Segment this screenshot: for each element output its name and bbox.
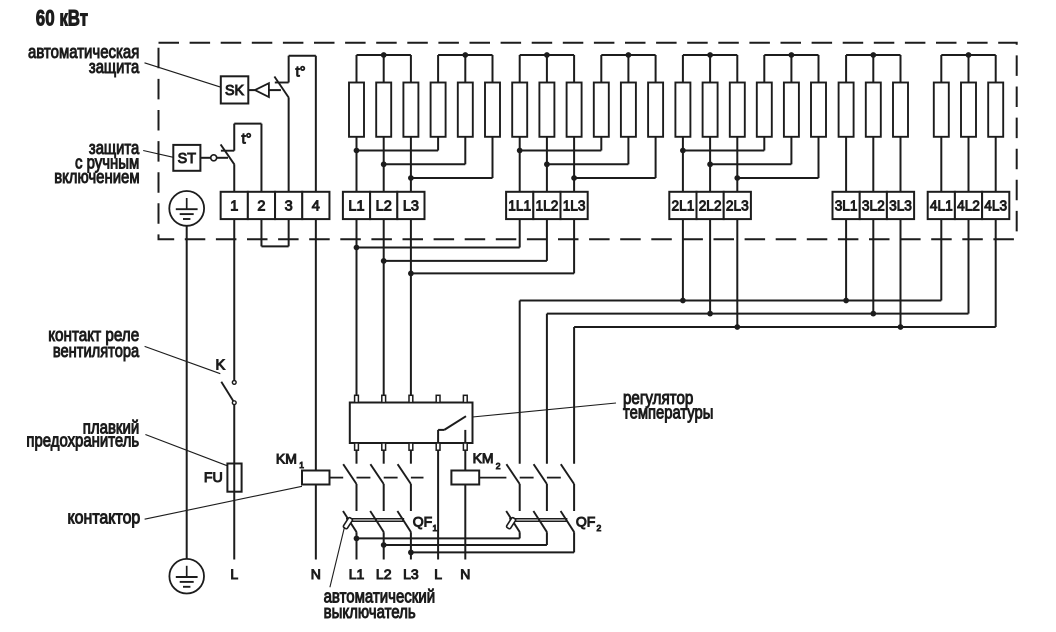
heater element EK3b3	[811, 83, 826, 137]
svg-text:KM: KM	[276, 451, 297, 467]
relay box SK	[221, 76, 249, 103]
junction EK2b mid	[626, 52, 632, 58]
heater element EK3a1	[675, 83, 690, 137]
wire tap to 1L1	[357, 247, 520, 249]
wire 3L1 to bus	[845, 219, 847, 300]
svg-text:SK: SK	[225, 83, 245, 99]
svg-text:4: 4	[312, 198, 320, 214]
wire element EK2b2 top	[627, 55, 629, 83]
svg-text:3L2: 3L2	[862, 198, 885, 214]
terminal 4L3 of block XT6	[982, 192, 1009, 219]
wire element EK2a3 top	[573, 55, 575, 83]
wire QF2 output 3 to phase	[411, 551, 574, 553]
KM2 linkage dashes	[479, 477, 506, 479]
star top bar EK2b	[601, 54, 655, 56]
KM2 contact pole 3	[561, 464, 574, 484]
junction EK2 phase 1	[517, 148, 523, 154]
wire 2L3 to bus	[736, 219, 738, 327]
wire element EK1a3 top	[410, 55, 412, 83]
fan relay contact K	[232, 381, 236, 385]
terminal 1L2 of block XT3	[533, 192, 560, 219]
svg-text:t°: t°	[296, 64, 306, 81]
svg-text:1L2: 1L2	[536, 198, 559, 214]
wire element EK3a3 top	[736, 55, 738, 83]
terminal 2L1 of block XT4	[669, 192, 696, 219]
svg-text:ST: ST	[178, 151, 197, 167]
terminal L2 of block XT2	[370, 192, 397, 219]
svg-text:2: 2	[257, 198, 265, 214]
wire EK2 element 3 bottom to terminal	[573, 137, 575, 192]
junction QF1 output 3	[408, 550, 414, 556]
terminal 1 of block XT1	[221, 192, 248, 219]
svg-text:L2: L2	[376, 566, 392, 582]
wire N through coil KM1 to terminal	[315, 485, 317, 560]
wire element EK1b3 top	[492, 55, 494, 83]
wire EK2 element 2 bottom to terminal	[546, 137, 548, 192]
terminal 1L3 of block XT3	[561, 192, 588, 219]
wire terminal 4 (N) down to contactor coil KM1	[315, 219, 317, 470]
wire element EK1a2 top	[383, 55, 385, 83]
svg-text:контактор: контактор	[68, 507, 141, 527]
breaker QF1 pole 2	[370, 511, 384, 532]
junction phase L3 tap to 1L3	[408, 271, 414, 277]
svg-text:L1: L1	[348, 198, 364, 214]
KM1 contact pole 2	[383, 450, 385, 464]
junction EK5 mid	[966, 52, 972, 58]
svg-text:FU: FU	[204, 470, 223, 486]
regulator top pin 1	[355, 395, 359, 402]
wire phase L1 from terminal to regulator pin 1	[356, 219, 358, 395]
wire element EK3a1 top	[682, 55, 684, 83]
ground symbol PE bottom	[169, 559, 204, 594]
leader to FU	[145, 435, 227, 466]
bus KM2 phase 2	[547, 313, 969, 315]
svg-text:3L1: 3L1	[835, 198, 858, 214]
regulator internal switch	[437, 430, 439, 443]
regulator bottom pin 1	[355, 443, 359, 450]
svg-text:L3: L3	[403, 566, 419, 582]
svg-text:4L2: 4L2	[957, 198, 980, 214]
junction EK2 phase 3	[571, 175, 577, 181]
wire element EK52 top	[968, 55, 970, 83]
wire regulator pin 5 (N) to coil KM2 and terminal	[464, 450, 466, 470]
wire EK3 element 2 bottom to terminal	[709, 137, 711, 192]
wire element EK2b1 top	[600, 55, 602, 83]
svg-text:2L2: 2L2	[699, 198, 722, 214]
svg-text:1L1: 1L1	[508, 198, 531, 214]
heater enclosure dashed border	[159, 43, 1017, 239]
wire element EK1b2 top	[464, 55, 466, 83]
regulator top pin 4	[436, 395, 440, 402]
breaker QF2 pole 1	[506, 511, 520, 532]
wire EK1 element 3 bottom to terminal	[410, 137, 412, 192]
wire EK1 element 5 bottom jog	[464, 137, 466, 165]
wire element EK41 top	[845, 55, 847, 83]
SK thermostat blade	[274, 77, 289, 98]
junction EK1a mid	[381, 52, 387, 58]
junction QF1 output 1	[354, 536, 360, 542]
wire regulator pin 4 (L) down to terminal	[437, 450, 439, 559]
wire element EK53 top	[995, 55, 997, 83]
star top bar EK5	[941, 54, 995, 56]
wire element EK2a2 top	[546, 55, 548, 83]
heater element EK1b1	[431, 83, 446, 137]
KM1 contact pole 3	[410, 450, 412, 464]
heater element EK52	[961, 83, 976, 137]
wire EK3 element 6 bottom jog	[818, 137, 820, 178]
regulator top pin 2	[382, 395, 386, 402]
wire 2L2 to bus	[709, 219, 711, 314]
svg-text:KM: KM	[473, 450, 494, 466]
wire element EK42 top	[872, 55, 874, 83]
wire element EK1a1 top	[356, 55, 358, 83]
ST thermostat blade	[221, 144, 235, 164]
wire triangle to SK thermostat contact	[269, 89, 281, 91]
svg-text:L: L	[434, 566, 442, 582]
svg-text:включением: включением	[54, 167, 139, 187]
terminal 3L2 of block XT5	[860, 192, 887, 219]
KM2 contact pole 2	[534, 464, 547, 484]
svg-text:2L3: 2L3	[726, 198, 749, 214]
breaker QF1 pole 1	[343, 511, 357, 532]
star top bar EK1b	[438, 54, 492, 56]
terminal L3 of block XT2	[397, 192, 424, 219]
leader to SK	[145, 63, 221, 87]
junction EK2a mid	[544, 52, 550, 58]
star top bar EK2a	[520, 54, 574, 56]
wire EK1 element 6 bottom jog	[492, 137, 494, 178]
KM1 linkage dashes	[330, 477, 344, 479]
svg-text:4L3: 4L3	[984, 198, 1007, 214]
svg-text:N: N	[460, 566, 470, 582]
wire EK3 element 1 bottom to terminal	[682, 137, 684, 192]
wire element EK51 top	[940, 55, 942, 83]
triangle arrow at SK	[255, 83, 269, 97]
heater element EK53	[988, 83, 1003, 137]
heater element EK1b2	[458, 83, 473, 137]
wire EK2 element 5 bottom jog	[627, 137, 629, 165]
SK thermostat tick into sensor box	[275, 82, 289, 84]
terminal 2L2 of block XT4	[697, 192, 724, 219]
wire QF2 output 2 to phase	[384, 544, 547, 546]
junction phase L2 tap to 1L2	[381, 258, 387, 264]
svg-text:2L1: 2L1	[672, 198, 695, 214]
svg-text:4L1: 4L1	[930, 198, 953, 214]
fuse FU	[233, 464, 235, 492]
wire EK3 element 5 bottom jog	[790, 137, 792, 165]
wire EK1 element 4 bottom jog	[437, 137, 439, 151]
junction EK1b mid	[462, 52, 468, 58]
wire terminal 1 down to K contact	[233, 219, 235, 380]
regulator top pin 5	[463, 395, 467, 402]
leader to KM1	[145, 486, 302, 519]
regulator bottom pin 2	[382, 443, 386, 450]
leader to K	[145, 346, 221, 373]
ST thermostat tick into sensor box	[221, 150, 234, 152]
breaker QF2 linkage double bar	[509, 518, 567, 520]
svg-text:3: 3	[285, 198, 293, 214]
svg-text:3L3: 3L3	[889, 198, 912, 214]
svg-text:L2: L2	[376, 198, 392, 214]
heater element EK3b1	[757, 83, 772, 137]
junction phase L1 tap to 1L1	[354, 245, 360, 251]
svg-text:K: K	[215, 357, 225, 373]
svg-text:N: N	[311, 566, 321, 582]
terminal 4L2 of block XT6	[955, 192, 982, 219]
relay box ST	[173, 145, 200, 171]
wire 3L3 to bus	[900, 219, 902, 327]
wire QF2 output 1 to phase	[357, 537, 520, 539]
wire EK1 element 1 bottom to terminal	[356, 137, 358, 192]
junction bus 2 at 2L2	[707, 311, 713, 317]
junction EK2 phase 2	[544, 161, 550, 167]
wire phase L2 from terminal to regulator pin 2	[383, 219, 385, 395]
junction bus 3 at 3L3	[898, 324, 904, 330]
ST contact fixed circle	[211, 155, 217, 161]
terminal 3 of block XT1	[275, 192, 302, 219]
wire EK5 element 2 bottom to terminal	[968, 137, 970, 192]
heater element EK2a2	[539, 83, 554, 137]
svg-text:предохранитель: предохранитель	[26, 430, 139, 450]
heater element EK2b3	[648, 83, 663, 137]
contactor coil KM1	[302, 471, 330, 485]
KM2 contact pole 1	[506, 464, 519, 484]
breaker QF1 handle flag	[343, 517, 353, 529]
wire 3L2 to bus	[872, 219, 874, 314]
heater element EK3b2	[784, 83, 799, 137]
ST sensor box t-deg (over terminals 1-2)	[233, 124, 235, 151]
junction EK1 phase 1	[354, 148, 360, 154]
junction EK1 phase 2	[381, 161, 387, 167]
heater element EK2b1	[594, 83, 609, 137]
svg-text:L: L	[230, 566, 238, 582]
junction bus 2 at 3L2	[870, 311, 876, 317]
terminal 1L1 of block XT3	[506, 192, 533, 219]
heater element EK2b2	[621, 83, 636, 137]
ground symbol PE top (inside enclosure)	[169, 191, 204, 226]
svg-text:температуры: температуры	[623, 402, 713, 422]
svg-text:защита: защита	[89, 57, 140, 77]
breaker QF2 pole 3	[561, 511, 575, 532]
junction EK4 mid	[870, 52, 876, 58]
wire EK1 element 2 bottom to terminal	[383, 137, 385, 192]
svg-text:60 кВт: 60 кВт	[36, 6, 88, 31]
breaker QF1 linkage double bar	[346, 518, 404, 520]
svg-text:t°: t°	[242, 131, 252, 148]
svg-text:вентилятора: вентилятора	[53, 341, 140, 361]
bus KM2 phase 3	[574, 326, 996, 328]
terminal 3L3 of block XT5	[887, 192, 914, 219]
heater element EK3a2	[703, 83, 718, 137]
star top bar EK1a	[357, 54, 411, 56]
junction EK1 phase 3	[408, 175, 414, 181]
regulator bottom pin 5	[463, 443, 467, 450]
svg-text:2: 2	[597, 523, 602, 533]
heater element EK3a3	[730, 83, 745, 137]
heater element EK1a3	[403, 83, 418, 137]
wire EK2 element 4 bottom jog	[600, 137, 602, 151]
bus KM2 phase 1	[520, 300, 942, 302]
wire tap to 1L2	[384, 260, 547, 262]
junction EK3 phase 3	[734, 175, 740, 181]
heater element EK42	[866, 83, 881, 137]
heater element EK2a1	[512, 83, 527, 137]
svg-text:1L3: 1L3	[563, 198, 586, 214]
svg-text:выключатель: выключатель	[324, 602, 416, 622]
junction EK3 phase 2	[707, 161, 713, 167]
junction EK3a mid	[707, 52, 713, 58]
heater element EK2a3	[567, 83, 582, 137]
wire EK4 element 2 bottom to terminal	[872, 137, 874, 192]
svg-text:L1: L1	[349, 566, 365, 582]
terminal 3L1 of block XT5	[833, 192, 860, 219]
terminal 2 of block XT1	[248, 192, 275, 219]
star top bar EK3a	[683, 54, 737, 56]
wire SK to triangle	[248, 89, 255, 91]
wire EK4 element 3 bottom to terminal	[900, 137, 902, 192]
breaker QF2 pole 2	[533, 511, 547, 532]
junction bus 1 at 2L1	[680, 298, 686, 304]
wire EK4 element 1 bottom to terminal	[845, 137, 847, 192]
regulator bottom pin 3	[409, 443, 413, 450]
terminal L1 of block XT2	[343, 192, 370, 219]
wire circle to ST thermostat	[217, 157, 228, 159]
wire EK3 element 4 bottom jog	[763, 137, 765, 151]
junction bus 3 at 2L3	[734, 324, 740, 330]
wire element EK3b1 top	[763, 55, 765, 83]
leader to ST	[143, 151, 173, 158]
wire tap to 1L3	[411, 272, 574, 274]
wire element EK43 top	[900, 55, 902, 83]
star top bar EK3b	[764, 54, 818, 56]
junction EK3 phase 1	[680, 148, 686, 154]
wire element EK3a2 top	[709, 55, 711, 83]
breaker QF1 pole 3	[397, 511, 411, 532]
heater element EK43	[893, 83, 908, 137]
KM1 contact pole 1	[356, 450, 358, 464]
svg-text:1: 1	[230, 198, 238, 214]
wire EK2 element 1 bottom to terminal	[519, 137, 521, 192]
svg-text:2: 2	[496, 461, 501, 471]
wire element EK2b3 top	[655, 55, 657, 83]
junction bus 1 at 3L1	[843, 298, 849, 304]
wire EK3 element 3 bottom to terminal	[736, 137, 738, 192]
contactor coil KM2	[451, 471, 479, 485]
svg-text:QF: QF	[576, 514, 595, 530]
terminal 4 of block XT1	[302, 192, 329, 219]
wire element EK3b2 top	[790, 55, 792, 83]
heater element EK1a2	[376, 83, 391, 137]
junction QF1 output 2	[381, 542, 387, 548]
wire element EK1b1 top	[437, 55, 439, 83]
heater element EK51	[934, 83, 949, 137]
wire FU to terminal L	[233, 492, 235, 560]
jumper terminals 2-3	[260, 219, 262, 246]
wire EK5 element 3 bottom to terminal	[995, 137, 997, 192]
regulator top pin 3	[409, 395, 413, 402]
terminal 2L3 of block XT4	[724, 192, 751, 219]
regulator bottom pin 4	[436, 443, 440, 450]
wire 2L1 to bus	[682, 219, 684, 300]
terminal 4L1 of block XT6	[928, 192, 955, 219]
junction EK3b mid	[789, 52, 795, 58]
leader to regulator	[473, 403, 617, 417]
svg-text:1: 1	[299, 460, 304, 470]
SK sensor box t-deg (over terminals 3-4)	[288, 56, 290, 83]
wire ST to contact circle	[200, 157, 210, 159]
heater element EK1b3	[485, 83, 500, 137]
svg-text:L3: L3	[403, 198, 419, 214]
wire element EK2a1 top	[519, 55, 521, 83]
heater element EK1a1	[349, 83, 364, 137]
star top bar EK4	[846, 54, 900, 56]
heater element EK41	[839, 83, 854, 137]
wire EK5 element 1 bottom to terminal	[940, 137, 942, 192]
leader to QF1 flag	[330, 527, 345, 587]
svg-text:QF: QF	[413, 514, 432, 530]
wire ground vertical	[186, 226, 188, 559]
breaker QF2 handle flag	[506, 517, 516, 529]
svg-text:1: 1	[433, 523, 438, 533]
wire K to fuse FU	[233, 405, 235, 464]
wire phase L3 from terminal to regulator pin 3	[410, 219, 412, 395]
temperature regulator box	[350, 403, 473, 444]
wire EK2 element 6 bottom jog	[655, 137, 657, 178]
wire element EK3b3 top	[818, 55, 820, 83]
